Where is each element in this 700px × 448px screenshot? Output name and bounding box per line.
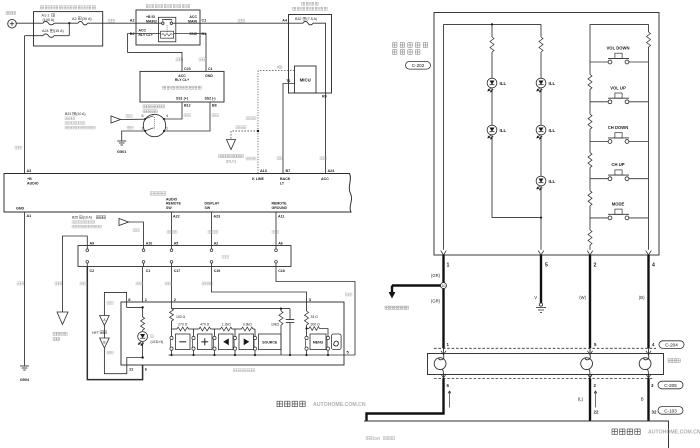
battery: [8, 19, 17, 28]
cruise control system label: [385, 306, 408, 309]
last ladder resistor: [589, 218, 591, 230]
wire C18 to pin 5 (right edge): [276, 267, 355, 356]
svg-text:(15 A): (15 A): [54, 29, 64, 33]
10k ohm resistor: [280, 308, 282, 310]
dotted K-line down to A13: [257, 71, 259, 174]
svg-text:RLY CL+: RLY CL+: [175, 78, 189, 82]
svg-text:(DLC): (DLC): [226, 160, 236, 164]
wire exit arrow: [587, 251, 593, 255]
qian lan se label: [246, 117, 256, 120]
unit title: [163, 86, 202, 89]
keyless entry control unit box: [140, 71, 224, 102]
DLC triangle connector: [227, 140, 236, 150]
hui se label: [107, 302, 113, 305]
svg-text:A1-1: A1-1: [42, 14, 50, 18]
svg-text:ILL: ILL: [500, 81, 507, 86]
svg-text:SW: SW: [205, 206, 211, 210]
ILL resistor left: [491, 24, 493, 37]
svg-text:2: 2: [594, 262, 597, 268]
left rail of button ladder: [589, 24, 591, 62]
clock spring coil: [443, 348, 445, 354]
pin8 wire joins LED chain: [127, 306, 143, 308]
pin 2 wire into top bus: [171, 302, 173, 309]
wire C17 to pin 2: [171, 267, 173, 303]
box label below: [233, 369, 255, 372]
HFT switch loop wiring: [104, 292, 126, 315]
clock spring coil: [589, 348, 591, 354]
svg-text:C1: C1: [202, 19, 207, 23]
wire color hei se (black): [199, 58, 206, 61]
svg-text:A10: A10: [146, 241, 153, 245]
svg-text:C1: C1: [146, 269, 151, 273]
splice 10: [441, 283, 447, 289]
capacitor: [289, 309, 291, 320]
resistor 270 Ω: [177, 327, 189, 331]
junction node: [68, 22, 70, 24]
ground symbol V: [539, 303, 542, 306]
button network top bus: [590, 23, 649, 25]
svg-text:10kΩ: 10kΩ: [271, 323, 279, 327]
MICU box: [295, 66, 317, 93]
svg-text:B2: B2: [130, 32, 135, 36]
wire A22 to A5: [171, 212, 173, 246]
svg-text:(7.5 A): (7.5 A): [307, 17, 318, 21]
svg-text:(10 A): (10 A): [83, 216, 92, 220]
watermark autohome 1: [277, 401, 305, 406]
join to right ILL rail: [492, 217, 541, 219]
ILL resistor right: [540, 24, 542, 37]
svg-text:MODE: MODE: [612, 201, 625, 206]
fuse box title: [40, 6, 95, 9]
wire exit arrow: [538, 251, 544, 255]
svg-text:A1: A1: [27, 214, 32, 218]
svg-text:A5: A5: [174, 241, 179, 245]
push button VOL UP: [590, 101, 608, 103]
svg-text:B32: B32: [295, 17, 301, 21]
ladder resistor: [589, 62, 591, 74]
svg-text:SW: SW: [166, 206, 172, 210]
svg-text:GND: GND: [189, 32, 197, 36]
svg-text:A9: A9: [90, 241, 95, 245]
wire color hong se (red) to A4: [238, 19, 245, 22]
watermark autohome 2: [612, 429, 640, 434]
hei se label: [127, 126, 133, 129]
right arrow button label box: [239, 334, 254, 350]
top bus (ILL): [444, 23, 542, 25]
relay box title: [146, 4, 189, 7]
svg-text:470 Ω: 470 Ω: [200, 323, 210, 327]
thick wire pin1 (GR): [442, 255, 444, 348]
wire triangle to terminal 5: [121, 118, 146, 120]
wire triangle to A10: [129, 222, 144, 246]
svg-text:(L): (L): [578, 397, 584, 402]
lan bai se label: [208, 230, 218, 233]
wire color hong se (red): [108, 19, 115, 22]
svg-text:V: V: [534, 295, 537, 300]
thick wire 22 (L): [589, 378, 591, 421]
LED ILL 5 (right rail): [536, 176, 546, 190]
svg-text:CH DOWN: CH DOWN: [608, 125, 628, 130]
switch circle: [143, 114, 165, 136]
svg-text:+B: +B: [27, 177, 32, 181]
wire B1/GND down to keyless unit C1: [200, 34, 206, 72]
push button source: [254, 329, 256, 336]
svg-text:(B): (B): [639, 295, 645, 300]
ground G504: [20, 365, 29, 367]
push button minus: [170, 336, 173, 339]
junction on K-line: [257, 130, 259, 132]
ILL feed rail (pin 1): [443, 24, 445, 249]
svg-text:BACK: BACK: [280, 177, 291, 181]
push button right: [234, 329, 236, 336]
svg-text:C-204: C-204: [665, 343, 678, 348]
svg-text:R8: R8: [322, 95, 327, 99]
svg-text:10: 10: [442, 284, 446, 288]
svg-text:SOURCE: SOURCE: [262, 341, 278, 345]
audio unit box (bottom): [364, 421, 669, 448]
svg-text:GR: GR: [374, 436, 380, 441]
contacts: [144, 118, 146, 120]
push button CH DOWN: [590, 141, 608, 143]
fuse A24 (15A): [43, 34, 54, 37]
relay symbol: [158, 17, 175, 42]
K-line dashed from MICU: [258, 70, 295, 72]
svg-text:B31: B31: [65, 112, 71, 116]
wire A23 to A2: [211, 212, 213, 246]
battery label (xu dian chi): [6, 12, 16, 15]
svg-text:VOL DOWN: VOL DOWN: [607, 46, 630, 51]
svg-text:A2: A2: [72, 17, 77, 21]
svg-text:AUTOHOME.COM.CN: AUTOHOME.COM.CN: [648, 430, 700, 436]
svg-text:B8: B8: [212, 104, 217, 108]
resistor 470 Ω: [199, 327, 211, 331]
svg-text:SS2 (-): SS2 (-): [204, 97, 215, 101]
qian lan se label on branch: [236, 126, 246, 129]
ladder resistor: [589, 142, 591, 153]
under-dash fuse/relay box: [289, 15, 332, 94]
wire exit arrow: [441, 251, 447, 255]
svg-text:K LINE: K LINE: [252, 177, 264, 181]
svg-text:C-202: C-202: [412, 63, 425, 68]
svg-text:(100 A): (100 A): [43, 18, 55, 22]
svg-text:A23: A23: [214, 214, 221, 218]
qian lan se label lower: [246, 157, 256, 160]
svg-text:(LED×3): (LED×3): [151, 340, 164, 344]
svg-text:CH UP: CH UP: [611, 162, 624, 167]
wire from instrument (A9 feed): [63, 236, 88, 312]
B25 triangle connector: [119, 219, 129, 226]
instrument control module label: [53, 332, 67, 335]
wire through relay contacts: [136, 22, 162, 24]
svg-text:C19: C19: [214, 269, 221, 273]
left arrow button label box: [219, 334, 234, 350]
thick wire pin4 (B): [647, 255, 649, 348]
cable reel (clock spring) box: [428, 354, 664, 375]
HFT bottom wiring to pin 11: [104, 348, 142, 374]
B31 triangle connector: [111, 116, 121, 123]
svg-text:A6: A6: [278, 241, 283, 245]
audio unit title: [150, 192, 166, 195]
svg-text:C-205: C-205: [664, 383, 677, 388]
wire C19 to pin 3: [212, 267, 307, 303]
phone (hand) button: [326, 336, 329, 339]
zong bai se label: [202, 282, 212, 285]
bai se label: [80, 282, 87, 285]
audio remote switch box: [121, 302, 344, 365]
wire B8 down to switch terminal 1: [164, 102, 210, 131]
thick wire pin2 (W): [589, 255, 591, 348]
svg-text:ILL: ILL: [549, 81, 556, 86]
ladder resistor: [589, 179, 591, 191]
engine start/stop switch title: [143, 105, 165, 108]
LED ILL 2 (left rail): [487, 125, 497, 139]
LED chain: resistor: [142, 307, 144, 317]
svg-text:(30 A): (30 A): [82, 17, 92, 21]
svg-text:C17: C17: [174, 269, 181, 273]
top bus: [172, 308, 291, 310]
push button plus: [193, 329, 195, 336]
zong se label: [272, 230, 278, 233]
svg-text:3.9kΩ: 3.9kΩ: [243, 323, 252, 327]
svg-text:1: 1: [447, 262, 450, 268]
svg-text:SS1 (+): SS1 (+): [176, 97, 188, 101]
LED ILL 1 (left rail): [487, 78, 497, 92]
svg-text:B: B: [103, 341, 105, 345]
fuse B32 (7.5A): [289, 22, 304, 24]
wire C2 (white) down and around to pin 6: [87, 267, 142, 380]
svg-text:A13: A13: [260, 169, 267, 173]
wire C1 to pin 1: [142, 267, 144, 303]
wire to fuse A24: [68, 23, 70, 36]
title line1: [302, 2, 319, 5]
xian shu label: [222, 255, 229, 258]
under-dash auxiliary relay box: [136, 10, 200, 45]
svg-text:B: B: [641, 397, 644, 402]
zong se label: [345, 293, 352, 296]
right rail with resistor: [648, 24, 650, 32]
svg-text:100 Ω: 100 Ω: [176, 315, 186, 319]
MENU button: [306, 329, 308, 337]
svg-text:MENU: MENU: [313, 341, 324, 345]
zong se label: [212, 114, 218, 117]
LED ILL 4 (right rail): [536, 125, 546, 139]
wire A11 to A6: [275, 212, 277, 246]
svg-text:B7: B7: [286, 169, 291, 173]
strip pin A6/C18: [275, 246, 277, 249]
svg-text:(GR): (GR): [431, 299, 441, 304]
wire color zong se: [176, 58, 183, 61]
plus button label box: [198, 334, 213, 350]
svg-text:VOL UP: VOL UP: [610, 85, 626, 90]
svg-text:C1: C1: [208, 67, 213, 71]
svg-text:ILL: ILL: [549, 179, 556, 184]
svg-text:(W): (W): [579, 295, 586, 300]
svg-text:G501: G501: [117, 150, 126, 154]
cable reel connector C-204 dashed: [434, 347, 656, 349]
hui se label: [133, 229, 139, 232]
dashed branch to DLC: [231, 130, 258, 132]
DLC label: [219, 155, 244, 158]
ground G501: [117, 140, 126, 142]
svg-text:HFT: HFT: [92, 331, 100, 335]
wire color zong se above B7: [277, 157, 283, 160]
svg-text:5: 5: [545, 262, 548, 268]
resistor 3.9kΩ: [242, 327, 254, 331]
lan se label: [184, 114, 190, 117]
svg-text:ILL: ILL: [500, 128, 507, 133]
HFT triangle B: [100, 338, 110, 348]
svg-text:1.2kΩ: 1.2kΩ: [222, 323, 231, 327]
svg-text:33 Ω: 33 Ω: [311, 315, 319, 319]
coil wires B2/B1: [136, 33, 161, 35]
connector C-205 dashed: [434, 377, 654, 379]
lamp LED x3: [138, 332, 148, 346]
svg-text:2: 2: [142, 126, 144, 130]
svg-text:22: 22: [594, 410, 599, 415]
strip pin A2/C19: [211, 246, 213, 249]
huang se label: [165, 282, 172, 285]
svg-text:ACC: ACC: [321, 177, 329, 181]
audio unit box with torn right edge: [4, 174, 352, 213]
wire color bai se above A24: [320, 157, 326, 160]
svg-text:4: 4: [166, 114, 168, 118]
HFT triangle A: [100, 316, 110, 326]
svg-text:(10 A): (10 A): [76, 112, 85, 116]
instrument control module triangle: [57, 312, 68, 325]
push button left: [214, 329, 216, 336]
MENU chain: 33ohm + 300ohm: [306, 302, 308, 311]
zhong tan huang label: [668, 359, 680, 363]
push button VOL DOWN: [590, 61, 608, 63]
svg-text:C23: C23: [184, 67, 191, 71]
title fang xiang pan yin xiang: [393, 43, 428, 47]
hui se label: [136, 282, 143, 285]
hei se label: [17, 282, 24, 285]
strip pin A9/C2: [86, 246, 88, 249]
svg-text:B1: B1: [202, 32, 207, 36]
wire B2 down to keyless unit C23: [128, 34, 182, 72]
minus button label box: [176, 334, 191, 350]
svg-text:GROUND: GROUND: [272, 206, 288, 210]
deng (LED x3) label: [151, 335, 154, 338]
svg-text:AUDIO: AUDIO: [27, 182, 39, 186]
thick wire pin5 to ground: [540, 255, 542, 303]
cruise control branch: [392, 284, 441, 286]
ladder resistor: [589, 102, 591, 114]
svg-text:GND: GND: [205, 74, 213, 78]
SOURCE button label box: [259, 334, 282, 350]
thin up arrow beside wire 6: [449, 392, 451, 408]
wire exit arrow: [646, 251, 652, 255]
engine compartment fuse/relay box: [34, 12, 103, 46]
svg-text:C-103: C-103: [664, 408, 677, 413]
audio GR connector label: [366, 436, 373, 439]
title line2: [293, 7, 328, 10]
svg-text:5: 5: [142, 114, 144, 118]
hong se label: [107, 351, 113, 354]
fuse A2 (30A): [78, 21, 88, 24]
svg-text:GND: GND: [16, 207, 25, 211]
thin up arrow beside wire 22: [595, 392, 597, 408]
wire terminal 2 to ground G501: [122, 131, 146, 141]
wire battery to fuse box: [16, 22, 33, 24]
clock spring coil: [648, 348, 650, 354]
svg-text:B12: B12: [184, 104, 191, 108]
LED ILL 3 (right rail): [536, 78, 546, 92]
harness connector strip: [78, 246, 291, 267]
strip pin A10/C1: [143, 246, 145, 249]
push button MODE: [590, 217, 608, 219]
svg-text:300 Ω: 300 Ω: [311, 323, 321, 327]
svg-text:A11: A11: [278, 214, 284, 218]
bottom bus: [169, 354, 345, 356]
steering wheel audio remote switch box: [434, 13, 659, 256]
svg-text:MICU: MICU: [300, 78, 311, 83]
svg-text:32: 32: [652, 410, 657, 415]
push button CH UP: [590, 178, 608, 180]
wire color bai se (white): [15, 146, 22, 149]
svg-text:(GR): (GR): [431, 273, 441, 278]
svg-text:270 Ω: 270 Ω: [178, 323, 188, 327]
connector tag C-202: [406, 62, 431, 70]
bai se label: [126, 115, 132, 118]
thick wire pin6 down-left to audio unit: [367, 378, 444, 421]
svg-text:AUTOHOME.COM.CN: AUTOHOME.COM.CN: [313, 402, 366, 408]
long white wire down to audio unit A3: [24, 36, 26, 174]
strip pin A5/C17: [171, 246, 173, 249]
svg-text:4: 4: [652, 262, 655, 268]
thick wire 32 (B): [647, 378, 649, 421]
svg-text:G504: G504: [20, 378, 30, 382]
svg-text:A24: A24: [42, 29, 49, 33]
resistor 100 ohm: [170, 309, 174, 321]
wire B12 down to switch terminal 4: [164, 102, 182, 119]
wire A1 to ground G504: [24, 212, 26, 366]
svg-text:A3: A3: [27, 169, 32, 173]
svg-text:A2: A2: [130, 19, 135, 23]
hong se label: [55, 282, 62, 285]
svg-text:B25: B25: [72, 216, 78, 220]
svg-text:C2: C2: [90, 269, 95, 273]
svg-text:A24: A24: [328, 169, 336, 173]
resistor 1.2kΩ: [221, 327, 233, 331]
svg-text:A22: A22: [173, 214, 180, 218]
svg-text:T1: T1: [286, 79, 290, 83]
svg-text:C18: C18: [278, 269, 285, 273]
fuse A1-1 (100A): [34, 22, 44, 24]
svg-text:ILL: ILL: [549, 128, 556, 133]
svg-text:A2: A2: [214, 241, 219, 245]
zong bai se label: [167, 230, 177, 233]
svg-text:1: 1: [166, 126, 168, 130]
